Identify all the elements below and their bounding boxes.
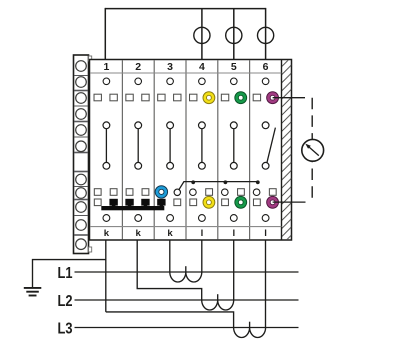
feed-through bushing on wire 4 xyxy=(194,27,210,43)
header row separator line xyxy=(91,72,282,74)
disconnect link terminal 5 closed xyxy=(230,122,237,169)
rail end clamp top xyxy=(89,56,92,61)
footer row separator line xyxy=(91,226,282,228)
wire l5 from terminal 5 down xyxy=(233,240,235,300)
lower slot square terminal 3 right xyxy=(174,199,181,206)
wire k2 from terminal 2 down xyxy=(137,240,202,300)
CT3 secondary winding on L3 xyxy=(234,322,266,338)
disconnect slot square terminal 6 top xyxy=(253,94,260,101)
terminal block body xyxy=(90,60,292,241)
disconnect slot squares terminal 1 top xyxy=(94,94,117,101)
wire from bus to terminal 5 xyxy=(233,9,235,60)
isolating hatched strip xyxy=(282,60,292,241)
earth ground symbol xyxy=(24,288,42,296)
wire from bus to terminal 4 xyxy=(201,9,203,60)
wire from bus to terminal 1 xyxy=(104,8,106,60)
CT1 secondary winding on L1 xyxy=(170,266,202,282)
k and l terminal labels xyxy=(104,228,267,239)
bottom test point circles xyxy=(103,215,269,222)
test socket yellow terminal 4 lower xyxy=(203,196,215,208)
lower slot squares terminal 4 xyxy=(190,189,213,206)
disconnect slot square terminal 5 top xyxy=(221,94,228,101)
svg-text:k: k xyxy=(136,228,142,239)
earth branch wire xyxy=(33,260,106,288)
feed-through bushing on wire 6 xyxy=(258,27,274,43)
wire l6 from terminal 6 down xyxy=(265,240,267,328)
terminal numbers 1-6 xyxy=(103,61,268,73)
svg-text:4: 4 xyxy=(199,61,205,73)
rail end clamp bottom xyxy=(89,247,92,252)
CT2 secondary winding on L2 xyxy=(202,294,234,310)
wire k1 branch to CT3 xyxy=(106,312,234,328)
disconnect link terminal 3 closed xyxy=(167,122,174,169)
svg-text:L2: L2 xyxy=(58,293,73,310)
jumper end dot terminal 6 xyxy=(256,180,260,184)
wire l4 from terminal 4 down xyxy=(201,240,203,272)
test socket yellow terminal 4 top xyxy=(203,92,215,104)
svg-text:1: 1 xyxy=(103,61,109,73)
svg-text:l: l xyxy=(232,228,235,239)
lower slot squares terminal 5 xyxy=(222,189,245,206)
dashed measuring lead xyxy=(311,98,313,202)
svg-text:k: k xyxy=(167,228,173,239)
disconnect link terminal 2 closed xyxy=(135,122,142,169)
svg-text:L1: L1 xyxy=(58,265,73,282)
svg-text:l: l xyxy=(201,228,204,239)
top feed bus wire xyxy=(105,8,265,10)
phase line L2 xyxy=(75,299,299,301)
feed-through bushing on wire 5 xyxy=(226,27,242,43)
meter tap line from lower magenta socket xyxy=(273,201,306,203)
measuring instrument M1 xyxy=(302,139,324,161)
disconnect slot squares terminal 2 top xyxy=(126,94,149,101)
test socket magenta terminal 6 top xyxy=(267,92,279,104)
upper test point circles xyxy=(103,78,269,85)
lower test point circle terminal 6 xyxy=(253,189,260,196)
test socket magenta terminal 6 lower xyxy=(267,196,279,208)
jumper junction dot terminal 4 xyxy=(191,180,195,184)
disconnect link terminal 6 open xyxy=(262,122,275,169)
test socket green terminal 5 lower xyxy=(235,196,247,208)
test socket blue terminal 3 lower xyxy=(155,186,167,198)
disconnect slot square terminal 4 top xyxy=(190,94,197,101)
meter tap line from upper magenta socket xyxy=(273,97,305,99)
wire k3 from terminal 3 down xyxy=(169,240,171,272)
phase line L1 xyxy=(75,271,299,273)
marker strip rail body xyxy=(74,55,89,254)
disconnect slot squares terminal 3 top xyxy=(158,94,181,101)
svg-text:3: 3 xyxy=(167,61,173,73)
lower slot squares terminal 1 xyxy=(94,189,117,206)
shorting bridge bar with plugs xyxy=(101,199,165,211)
svg-text:5: 5 xyxy=(231,61,237,73)
svg-text:l: l xyxy=(264,228,267,239)
disconnect link terminal 4 closed xyxy=(199,122,206,169)
lower test point circle terminal 5 xyxy=(222,189,229,196)
column separator lines xyxy=(122,60,249,239)
lower slot squares terminal 2 xyxy=(126,189,149,196)
lower slot squares terminal 6 xyxy=(253,189,276,206)
wire from bus to terminal 6 xyxy=(265,8,267,60)
svg-text:L3: L3 xyxy=(58,320,73,337)
disconnect link terminal 1 closed xyxy=(103,122,110,169)
jumper wire from terminal 3 to terminals 4,5,6 xyxy=(174,182,258,196)
wire k1 from terminal 1 down xyxy=(105,240,107,312)
phase line L3 xyxy=(75,327,299,329)
test socket green terminal 5 top xyxy=(235,92,247,104)
lower test point circle terminal 4 xyxy=(190,189,197,196)
rail screw heads xyxy=(76,61,87,250)
jumper junction dot terminal 5 xyxy=(224,180,228,184)
svg-text:k: k xyxy=(104,228,110,239)
svg-text:6: 6 xyxy=(263,61,269,73)
svg-text:2: 2 xyxy=(135,61,141,73)
